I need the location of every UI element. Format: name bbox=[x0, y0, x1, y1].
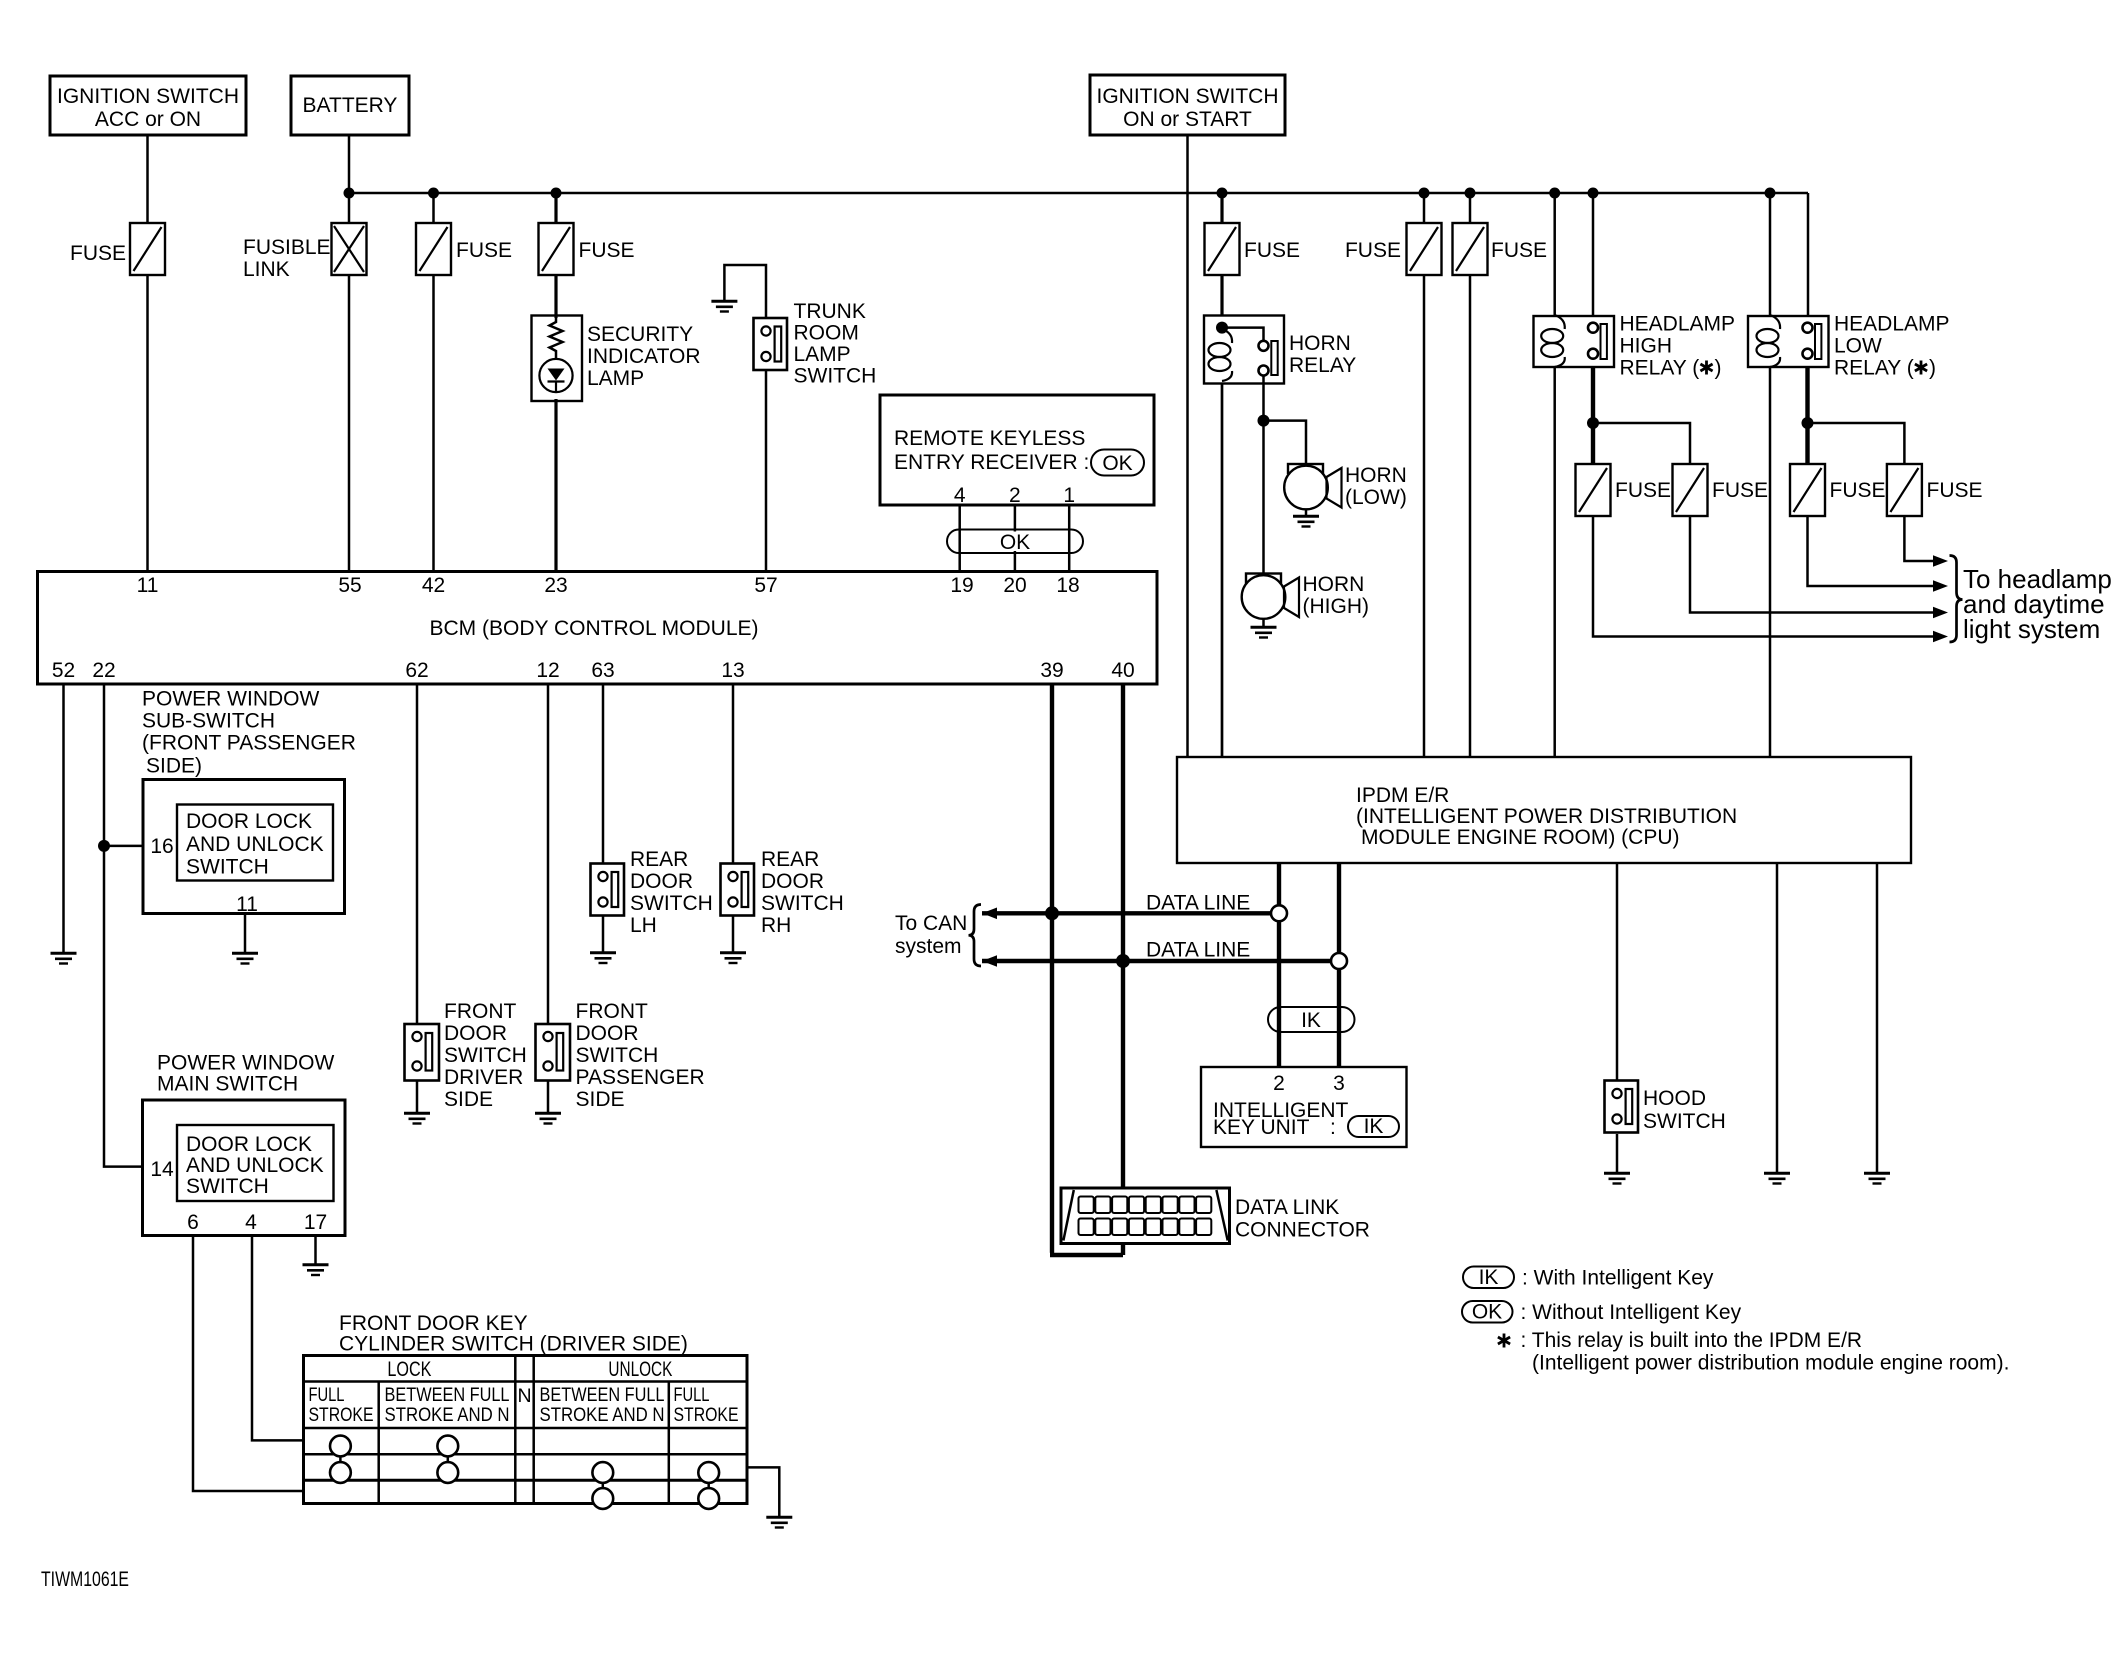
svg-text:BETWEEN FULL: BETWEEN FULL bbox=[540, 1384, 665, 1406]
svg-text:FRONT: FRONT bbox=[576, 1000, 648, 1023]
svg-text:FRONT: FRONT bbox=[444, 1000, 516, 1023]
svg-text::: : bbox=[1330, 1116, 1336, 1139]
svg-text:POWER WINDOW: POWER WINDOW bbox=[157, 1052, 334, 1075]
svg-text:LH: LH bbox=[630, 914, 657, 937]
svg-text:HORN: HORN bbox=[1345, 464, 1407, 487]
svg-text:16: 16 bbox=[150, 835, 173, 858]
svg-text:12: 12 bbox=[536, 659, 559, 682]
svg-text:SWITCH: SWITCH bbox=[186, 1175, 269, 1198]
svg-text:TRUNK: TRUNK bbox=[794, 300, 866, 323]
svg-text:REMOTE KEYLESS: REMOTE KEYLESS bbox=[894, 427, 1085, 450]
svg-text:IGNITION SWITCH: IGNITION SWITCH bbox=[1097, 85, 1279, 108]
svg-text:4: 4 bbox=[954, 484, 966, 507]
svg-text:(FRONT PASSENGER: (FRONT PASSENGER bbox=[142, 732, 356, 755]
svg-text:SIDE: SIDE bbox=[576, 1088, 625, 1111]
svg-text:SWITCH: SWITCH bbox=[186, 856, 269, 879]
svg-text:KEY UNIT: KEY UNIT bbox=[1213, 1116, 1310, 1139]
svg-text:FUSE: FUSE bbox=[456, 239, 512, 262]
svg-text:(INTELLIGENT POWER DISTRIBUTIO: (INTELLIGENT POWER DISTRIBUTION bbox=[1356, 805, 1737, 828]
svg-text:REAR: REAR bbox=[761, 848, 819, 871]
svg-text:FUSE: FUSE bbox=[1830, 479, 1886, 502]
svg-text:SECURITY: SECURITY bbox=[587, 323, 693, 346]
svg-text:HORN: HORN bbox=[1289, 332, 1351, 355]
svg-text:TIWM1061E: TIWM1061E bbox=[41, 1568, 129, 1591]
svg-text:DOOR: DOOR bbox=[444, 1022, 507, 1045]
svg-text:FUSE: FUSE bbox=[1345, 239, 1401, 262]
svg-text:DOOR: DOOR bbox=[630, 870, 693, 893]
svg-text:light system: light system bbox=[1963, 614, 2100, 644]
svg-text:MAIN SWITCH: MAIN SWITCH bbox=[157, 1073, 298, 1096]
svg-text:: Without Intelligent Key: : Without Intelligent Key bbox=[1521, 1301, 1742, 1324]
svg-text:LINK: LINK bbox=[243, 258, 290, 281]
svg-text:MODULE ENGINE ROOM) (CPU): MODULE ENGINE ROOM) (CPU) bbox=[1361, 826, 1680, 849]
svg-text:IK: IK bbox=[1301, 1009, 1321, 1032]
svg-text:): ) bbox=[1715, 357, 1722, 380]
svg-text:N: N bbox=[517, 1385, 531, 1407]
svg-text:SWITCH: SWITCH bbox=[794, 365, 877, 388]
svg-text:LAMP: LAMP bbox=[587, 367, 644, 390]
svg-text:SWITCH: SWITCH bbox=[1643, 1110, 1726, 1133]
svg-text:OK: OK bbox=[1472, 1301, 1502, 1324]
svg-text:3: 3 bbox=[1333, 1072, 1345, 1095]
svg-text:62: 62 bbox=[405, 659, 428, 682]
svg-text:11: 11 bbox=[137, 574, 159, 597]
svg-text:OK: OK bbox=[1000, 531, 1030, 554]
svg-text:FUSE: FUSE bbox=[579, 239, 635, 262]
svg-text:To CAN: To CAN bbox=[895, 912, 967, 935]
svg-text:RELAY: RELAY bbox=[1289, 354, 1356, 377]
svg-text:STROKE AND N: STROKE AND N bbox=[385, 1404, 510, 1426]
svg-text:BETWEEN FULL: BETWEEN FULL bbox=[385, 1384, 510, 1406]
svg-text:HEADLAMP: HEADLAMP bbox=[1620, 313, 1736, 336]
svg-text:23: 23 bbox=[544, 574, 567, 597]
svg-text:system: system bbox=[895, 935, 962, 958]
svg-text:63: 63 bbox=[591, 659, 614, 682]
svg-text:FUSE: FUSE bbox=[1927, 479, 1983, 502]
svg-text:39: 39 bbox=[1040, 659, 1063, 682]
svg-text:DOOR LOCK: DOOR LOCK bbox=[186, 1133, 312, 1156]
svg-text:REAR: REAR bbox=[630, 848, 688, 871]
svg-text:RH: RH bbox=[761, 914, 791, 937]
svg-text:DRIVER: DRIVER bbox=[444, 1066, 523, 1089]
svg-text:IK: IK bbox=[1364, 1115, 1384, 1138]
svg-text:PASSENGER: PASSENGER bbox=[576, 1066, 705, 1089]
svg-text:IGNITION SWITCH: IGNITION SWITCH bbox=[57, 85, 239, 108]
svg-text:FUSE: FUSE bbox=[70, 242, 126, 265]
svg-text:20: 20 bbox=[1003, 574, 1026, 597]
svg-text:ENTRY RECEIVER :: ENTRY RECEIVER : bbox=[894, 451, 1089, 474]
svg-text:IPDM E/R: IPDM E/R bbox=[1356, 784, 1449, 807]
svg-text:BCM (BODY CONTROL MODULE): BCM (BODY CONTROL MODULE) bbox=[429, 617, 758, 640]
svg-text:FULL: FULL bbox=[674, 1384, 710, 1406]
svg-text:1: 1 bbox=[1063, 484, 1075, 507]
svg-text:INDICATOR: INDICATOR bbox=[587, 345, 701, 368]
svg-text:FUSE: FUSE bbox=[1712, 479, 1768, 502]
svg-text:STROKE: STROKE bbox=[309, 1404, 374, 1426]
svg-text:40: 40 bbox=[1111, 659, 1134, 682]
svg-text:11: 11 bbox=[236, 893, 258, 916]
svg-text:POWER WINDOW: POWER WINDOW bbox=[142, 688, 319, 711]
svg-text:2: 2 bbox=[1273, 1072, 1285, 1095]
svg-text:FUSE: FUSE bbox=[1244, 239, 1300, 262]
svg-text:52: 52 bbox=[52, 659, 75, 682]
svg-text:LOW: LOW bbox=[1834, 335, 1882, 358]
svg-text:13: 13 bbox=[721, 659, 744, 682]
svg-text:SWITCH: SWITCH bbox=[761, 892, 844, 915]
svg-text:: This relay is built into the: : This relay is built into the IPDM E/R bbox=[1521, 1329, 1863, 1352]
svg-text:RELAY (: RELAY ( bbox=[1620, 357, 1700, 380]
svg-text:19: 19 bbox=[950, 574, 973, 597]
svg-text:HORN: HORN bbox=[1303, 573, 1365, 596]
svg-text:STROKE: STROKE bbox=[674, 1404, 739, 1426]
svg-text:(HIGH): (HIGH) bbox=[1303, 595, 1370, 618]
svg-text:RELAY (: RELAY ( bbox=[1834, 357, 1914, 380]
svg-text:ON or START: ON or START bbox=[1123, 108, 1252, 131]
svg-text:(Intelligent power distributio: (Intelligent power distribution module e… bbox=[1532, 1352, 2009, 1375]
svg-text:17: 17 bbox=[304, 1211, 327, 1234]
svg-text:CYLINDER SWITCH (DRIVER SIDE): CYLINDER SWITCH (DRIVER SIDE) bbox=[339, 1333, 688, 1356]
svg-text:LOCK: LOCK bbox=[387, 1358, 431, 1381]
svg-text:BATTERY: BATTERY bbox=[303, 94, 398, 117]
svg-text:DATA LINE: DATA LINE bbox=[1146, 892, 1250, 915]
svg-text:DOOR: DOOR bbox=[576, 1022, 639, 1045]
svg-text:HOOD: HOOD bbox=[1643, 1087, 1706, 1110]
svg-text:OK: OK bbox=[1102, 452, 1132, 475]
svg-text:ACC or ON: ACC or ON bbox=[95, 108, 201, 131]
svg-text:AND UNLOCK: AND UNLOCK bbox=[186, 1154, 324, 1177]
svg-text:SUB-SWITCH: SUB-SWITCH bbox=[142, 710, 275, 733]
svg-text:4: 4 bbox=[245, 1211, 257, 1234]
svg-text:CONNECTOR: CONNECTOR bbox=[1235, 1219, 1370, 1242]
svg-text:DATA LINE: DATA LINE bbox=[1146, 939, 1250, 962]
svg-text:42: 42 bbox=[422, 574, 445, 597]
svg-text:DATA LINK: DATA LINK bbox=[1235, 1196, 1339, 1219]
svg-text:55: 55 bbox=[338, 574, 361, 597]
svg-text:: With Intelligent Key: : With Intelligent Key bbox=[1522, 1267, 1714, 1290]
svg-text:SWITCH: SWITCH bbox=[444, 1044, 527, 1067]
svg-text:LAMP: LAMP bbox=[794, 343, 851, 366]
svg-text:FUSE: FUSE bbox=[1615, 479, 1671, 502]
svg-text:FULL: FULL bbox=[309, 1384, 345, 1406]
svg-text:FUSIBLE: FUSIBLE bbox=[243, 236, 331, 259]
svg-text:): ) bbox=[1929, 357, 1936, 380]
svg-text:AND UNLOCK: AND UNLOCK bbox=[186, 833, 324, 856]
svg-text:IK: IK bbox=[1479, 1266, 1499, 1289]
svg-text:22: 22 bbox=[92, 659, 115, 682]
svg-text:14: 14 bbox=[150, 1158, 174, 1181]
svg-text:6: 6 bbox=[187, 1211, 199, 1234]
svg-text:HIGH: HIGH bbox=[1620, 335, 1673, 358]
svg-text:SIDE: SIDE bbox=[444, 1088, 493, 1111]
svg-text:DOOR: DOOR bbox=[761, 870, 824, 893]
svg-text:SWITCH: SWITCH bbox=[576, 1044, 659, 1067]
svg-text:ROOM: ROOM bbox=[794, 322, 859, 345]
svg-text:SIDE): SIDE) bbox=[146, 755, 202, 778]
svg-text:STROKE AND N: STROKE AND N bbox=[540, 1404, 665, 1426]
svg-text:SWITCH: SWITCH bbox=[630, 892, 713, 915]
svg-text:HEADLAMP: HEADLAMP bbox=[1834, 313, 1950, 336]
svg-text:57: 57 bbox=[754, 574, 777, 597]
svg-text:DOOR LOCK: DOOR LOCK bbox=[186, 810, 312, 833]
svg-text:18: 18 bbox=[1056, 574, 1079, 597]
svg-text:2: 2 bbox=[1009, 484, 1021, 507]
svg-text:UNLOCK: UNLOCK bbox=[608, 1358, 672, 1381]
svg-text:(LOW): (LOW) bbox=[1345, 486, 1407, 509]
svg-text:FUSE: FUSE bbox=[1491, 239, 1547, 262]
